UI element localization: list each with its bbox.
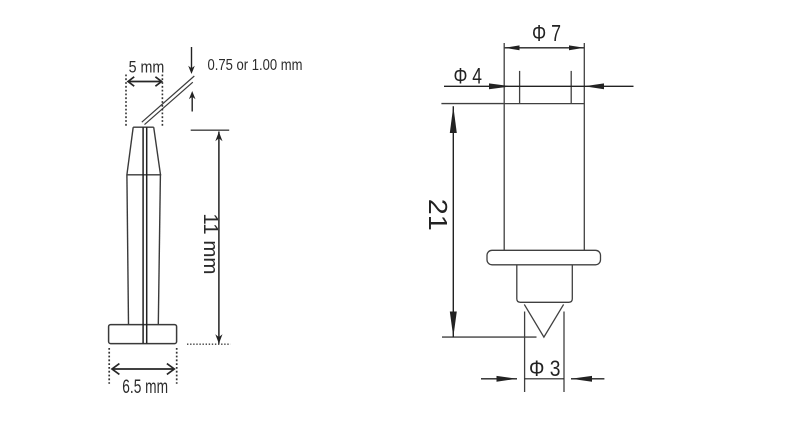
svg-text:Φ 7: Φ 7 (532, 20, 561, 46)
cylinder C1 left side with extension line (503, 43, 505, 250)
svg-text:21: 21 (423, 199, 453, 231)
pin P1 left (519, 71, 521, 104)
arrow down to bore leader (188, 47, 195, 74)
svg-text:Φ 4: Φ 4 (454, 64, 483, 89)
dimension line 5 mm with open arrowheads (128, 77, 162, 86)
leader lines for bore diameter (142, 76, 195, 125)
nozzle N1 tip outline (127, 127, 161, 175)
nozzle N1 base flange (109, 325, 177, 344)
reference line top of 21 dimension (441, 103, 503, 105)
holder H1 below flange (517, 265, 573, 303)
pin P2 right (570, 71, 572, 104)
flange F1 (487, 250, 601, 264)
cone tip V (524, 304, 563, 337)
reference line bottom of 21 dimension (442, 336, 537, 338)
dashed reference line bottom of 11 mm dimension (187, 343, 231, 345)
svg-text:Φ 3: Φ 3 (529, 356, 561, 381)
dotted extension lines for 6.5 mm (109, 348, 177, 384)
svg-text:0.75 or 1.00 mm: 0.75 or 1.00 mm (208, 57, 303, 74)
cylinder C1 right side with extension line (583, 43, 585, 250)
dimension line 21 (450, 106, 457, 337)
svg-text:5 mm: 5 mm (129, 59, 165, 77)
dotted extension lines for 5 mm (126, 75, 162, 127)
dimension line phi 3 middle segment (525, 378, 564, 380)
dimension line phi 3 left arrow (481, 376, 517, 382)
nozzle N1 taper junction line (126, 174, 161, 176)
cylinder C1 top edge (504, 103, 584, 105)
arrow up to bore leader (189, 91, 196, 112)
dimension line phi 7 (504, 45, 584, 50)
extension lines for phi 3 (525, 312, 564, 393)
dimension line phi 3 right arrow (571, 376, 604, 382)
nozzle N1 body outline (127, 175, 160, 325)
nozzle N1 bore lines (143, 127, 147, 343)
dimension line phi 4 (444, 83, 634, 89)
svg-text:6.5 mm: 6.5 mm (122, 376, 168, 398)
reference line top of 11 mm dimension (191, 129, 230, 131)
dimension line 11 mm (215, 132, 222, 344)
dimension line 6.5 mm with open arrowheads (112, 364, 174, 375)
svg-text:11 mm: 11 mm (199, 213, 221, 274)
